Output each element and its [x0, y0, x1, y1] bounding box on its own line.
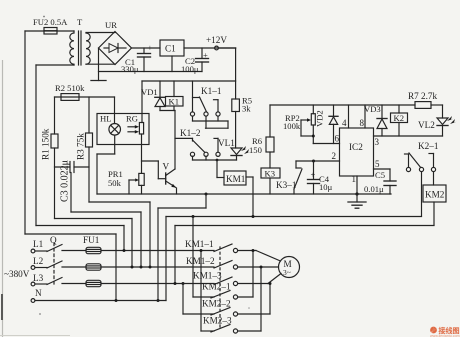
svg-text:K2: K2	[394, 113, 405, 123]
svg-text:8: 8	[360, 118, 365, 128]
svg-text:KM1–1: KM1–1	[185, 239, 214, 249]
svg-text:6: 6	[335, 134, 340, 144]
svg-text:RG: RG	[126, 114, 138, 124]
svg-text:+12V: +12V	[206, 35, 227, 45]
svg-text:IC2: IC2	[349, 142, 363, 152]
svg-text:KM1–2: KM1–2	[186, 256, 215, 266]
svg-text:L1: L1	[33, 239, 44, 249]
svg-text:4: 4	[342, 118, 347, 128]
svg-text:VL1: VL1	[218, 138, 235, 148]
svg-text:1: 1	[352, 174, 357, 184]
svg-text:VD1: VD1	[141, 87, 158, 97]
svg-text:VD2: VD2	[315, 110, 325, 127]
svg-text:HL: HL	[100, 114, 111, 124]
svg-text:N: N	[35, 288, 42, 298]
svg-text:R2 510k: R2 510k	[55, 83, 85, 93]
svg-text:+: +	[311, 170, 316, 180]
svg-text:KM2: KM2	[425, 190, 445, 200]
svg-text:3k: 3k	[242, 104, 251, 114]
svg-text:K1–1: K1–1	[201, 86, 222, 96]
svg-text:K1: K1	[169, 97, 180, 107]
svg-text:FU1: FU1	[83, 235, 100, 245]
svg-text:VL2: VL2	[418, 120, 435, 130]
svg-text:2: 2	[332, 151, 337, 161]
svg-text:KM2–2: KM2–2	[202, 299, 231, 309]
svg-text:R3 75k: R3 75k	[76, 133, 86, 160]
svg-text:C5: C5	[375, 170, 385, 180]
svg-text:330μ: 330μ	[121, 64, 139, 74]
svg-text:100k: 100k	[283, 121, 301, 131]
svg-text:KM1: KM1	[226, 174, 246, 184]
svg-text:0.01μ: 0.01μ	[364, 184, 384, 194]
svg-text:VD3: VD3	[364, 104, 381, 114]
svg-text:T: T	[77, 17, 83, 27]
svg-text:5: 5	[375, 159, 380, 169]
svg-text:K3: K3	[265, 169, 276, 179]
svg-text:UR: UR	[105, 20, 117, 30]
svg-text:L2: L2	[33, 256, 44, 266]
svg-text:K1–2: K1–2	[180, 128, 201, 138]
svg-text:R1 150k: R1 150k	[41, 128, 51, 160]
svg-text:L3: L3	[33, 273, 44, 283]
svg-text:100μ: 100μ	[181, 64, 199, 74]
svg-text:C1: C1	[165, 44, 176, 54]
svg-text:+: +	[148, 43, 153, 53]
svg-text:150: 150	[249, 145, 262, 155]
svg-text:3: 3	[375, 137, 380, 147]
svg-text:50k: 50k	[108, 178, 122, 188]
svg-text:FU2 0.5A: FU2 0.5A	[33, 17, 68, 27]
svg-text:~380V: ~380V	[4, 269, 30, 279]
svg-text:KM1–3: KM1–3	[193, 271, 222, 281]
svg-text:R7 2.7k: R7 2.7k	[408, 91, 438, 101]
svg-text:K2–1: K2–1	[418, 141, 439, 151]
svg-text:10μ: 10μ	[319, 182, 333, 192]
svg-text:KM2–3: KM2–3	[203, 316, 232, 326]
svg-text:3~: 3~	[283, 268, 291, 277]
svg-text:C3 0.022μ: C3 0.022μ	[60, 160, 71, 202]
svg-text:V: V	[163, 162, 170, 172]
svg-text:+: +	[203, 50, 208, 60]
